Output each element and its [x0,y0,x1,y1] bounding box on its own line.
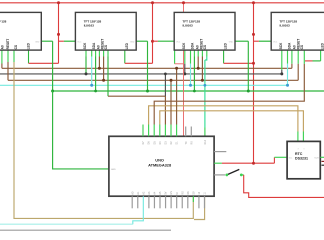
wire +5V vertical drop 2 [152,3,154,64]
svg-text:5V: 5V [165,191,168,194]
wire display2 CS drop [107,50,109,56]
wire power rail to RTC VCC [273,157,275,163]
wire display1 CS to UNO (khaki) [13,50,15,62]
wire display2 GND pin [136,40,147,42]
pin UNO top unconnected [190,127,192,137]
wire display3 SCK drop [184,50,186,64]
svg-text:DS3231: DS3231 [295,157,308,161]
display U2 TFT 128*128 ILI9163 [0,12,41,50]
wire LED display 2 to +5V [124,50,126,63]
wire RESET bus (brown) [2,67,292,69]
wire gray bottom [0,229,171,231]
wire LED display 1 to +5V [28,50,30,63]
node SDA junction display3 [189,84,192,87]
wire display4 SCK drop [281,50,283,70]
svg-text:GN: GN [170,191,173,195]
pin UNO top 6 [170,125,172,137]
RTC U6 DS3231 [287,141,320,178]
pin UNO bottom unconnected [131,196,133,208]
node green bus junction display2 [94,90,97,93]
svg-text:GND: GND [35,41,40,43]
svg-text:SCK: SCK [279,42,283,49]
svg-text:CS: CS [203,45,207,49]
node SCK junction display3 [183,72,186,75]
svg-text:CS: CS [104,45,108,49]
wire UNO pin to switch [214,174,225,176]
node A0 bus UNO junction [170,79,173,82]
node SCK bus junction at UNO drop [164,73,167,76]
wire +5V top bus [0,2,324,4]
wire VCC stub to display 3 [153,40,158,42]
node +5V mid junction 2 [151,40,154,43]
wire +5V to UNO (red drop, hidden behind display 3) [174,50,176,64]
pin UNO top 4 [159,125,161,137]
svg-text:CS: CS [300,45,304,49]
wire display4 CS to UNO (brown) [154,64,304,125]
svg-text:VCC: VCC [273,41,278,43]
wire display4 SDA drop [287,50,289,64]
svg-text:ATMEGA328: ATMEGA328 [148,162,172,167]
svg-text:ILI9163: ILI9163 [84,24,95,28]
svg-text:SDA: SDA [288,42,292,49]
pin RTC right stub [320,156,324,158]
node +5V mid junction 3 [252,33,255,36]
node +5V top junction 3 [252,1,255,4]
svg-text:ILI9163: ILI9163 [183,24,194,28]
wire display3 CS drop (teal) [206,50,208,56]
svg-text:GND: GND [111,169,116,171]
wire SDA bus (cyan) [0,84,288,86]
wire display3 SDA drop [190,50,192,64]
wire LED display 3 to +5V [223,50,225,63]
wire display1 GND pin [41,40,52,42]
pin UNO bottom unconnected [176,196,178,208]
node SCK junction display4 [280,72,283,75]
wire +5V vertical drop 1 [58,3,60,64]
pin UNO top 1 [142,125,144,137]
wire display2 CS to UNO (brown) [108,96,165,124]
node SCK junction display2 [85,72,88,75]
pin UNO top 2 [148,125,150,137]
node +5V top junction 2 [151,1,154,4]
svg-text:RS: RS [181,191,184,195]
svg-text:GND: GND [130,41,135,43]
pin UNO top unconnected [185,127,187,137]
svg-text:SCK: SCK [182,42,186,49]
svg-text:CS: CS [14,45,18,49]
svg-text:GND: GND [229,41,234,43]
svg-text:TFT 128*128: TFT 128*128 [0,19,7,23]
switch S1 pad right [240,174,243,177]
svg-text:SCL: SCL [289,157,293,159]
display U5 TFT 128*128 ILI9163 [271,12,324,50]
wire display3 RESET drop [197,50,199,56]
wire display3 A0 drop [193,50,195,56]
svg-text:LED: LED [26,42,30,49]
wire display4 RESET to A0-bus end [297,50,299,64]
wire VCC stub to display 4 [254,40,259,42]
wire display4 LED stub [320,50,322,61]
node A0 bus junction display2 [102,79,105,82]
node +5V mid junction 1 [57,33,60,36]
wire display3 GND pin [235,40,248,42]
wire SCK bus drop to UNO [164,74,166,96]
wire display3 CS-A drop [201,50,203,56]
pin UNO top 3 [153,125,155,137]
svg-text:VCC: VCC [77,41,82,43]
wire switch to bottom right (red) [241,174,243,176]
pin UNO bottom unconnected [198,196,200,208]
wire +5V vertical drop 3 [253,3,255,163]
node RESET junction display2 [98,67,101,70]
wire UNO to RTC SDA (tan) [149,106,298,132]
pin UNO top 7 [176,125,178,137]
node power rail junction [252,162,255,165]
node GND junction display1 [51,90,54,93]
display U3 TFT 128*128 ILI9163 [75,12,136,50]
pin UNO right unconnected stub [214,151,226,153]
svg-text:SQW: SQW [314,157,319,159]
wire GND bus to UNO GND pin [53,91,109,169]
svg-text:SDA: SDA [191,42,195,49]
svg-text:SCK: SCK [83,42,87,49]
wire display1 RESET pin drop [1,50,3,63]
node GND junction display2 [146,90,149,93]
pin UNO bottom unconnected [187,196,189,208]
node cyan bus crossing [204,84,207,87]
svg-text:ILI9163: ILI9163 [280,24,291,28]
switch S1 lever [227,169,240,175]
wire display2 CS-A drop [103,50,105,56]
node A0 bus junction display3 [201,79,204,82]
svg-text:RX: RX [190,141,193,145]
node +5V junction at third drop [252,62,255,65]
wire UNO pin to RESET bus [176,68,178,124]
pin UNO bottom unconnected [165,196,167,208]
node GND junction display3 [247,90,250,93]
wire display4 A0 to RESET-bus end [291,50,293,64]
pin UNO bottom unconnected [148,196,150,208]
svg-text:LED: LED [125,42,129,49]
wire khaki bottom jog [194,196,205,219]
wire display2 A0 drop [95,50,97,56]
svg-text:TX: TX [185,141,188,144]
node RESET junction display3 [197,67,200,70]
svg-text:RESET: RESET [6,39,10,50]
node SDA junction display2 [90,84,93,87]
wire A0 bus (brown) [8,79,298,81]
wire GND bus (green) [53,90,324,92]
wire UNO to RTC SCL (tan) [160,111,304,132]
pin UNO bottom unconnected [159,196,161,208]
pin UNO top 5 [164,125,166,137]
wire UNO 5V to power rail [214,162,222,164]
wire display2 SCK drop [85,50,87,56]
node SDA junction display4 [286,84,289,87]
wire display1 A0 pin drop [7,50,9,62]
wire display2 SDA drop [91,50,93,56]
svg-text:VCC: VCC [176,41,181,43]
offscreen component marks [322,160,324,162]
wire UNO pin to A0 bus [170,80,172,124]
svg-text:D13: D13 [204,139,207,144]
pin UNO A4 (cyan) [133,196,144,224]
svg-text:SDA: SDA [92,42,96,49]
wire VCC stub to display 2 [59,40,64,42]
node green bus junction display3 [193,90,196,93]
svg-text:LED: LED [224,42,228,49]
switch S1 pad left [225,174,228,177]
wire cyan bottom (SDA loop) [0,223,133,225]
wire display2 RESET drop [98,50,100,56]
svg-text:VI: VI [176,192,179,195]
svg-text:A0: A0 [1,45,5,49]
wire SCK bus (black) [0,73,282,75]
pin UNO bottom unconnected [181,196,183,208]
svg-text:RTC: RTC [295,152,303,156]
pin UNO bottom khaki [192,196,194,202]
display U4 TFT 128*128 ILI9163 [174,12,235,50]
pin UNO bottom unconnected [203,196,205,208]
node RESET bus UNO junction [175,67,178,70]
pin UNO bottom unconnected [153,196,155,208]
node +5V top junction 1 [57,1,60,4]
pin UNO bottom unconnected [137,196,139,208]
pin UNO bottom unconnected [170,196,172,208]
microcontroller U1 UNO ATMEGA328 [109,136,214,196]
